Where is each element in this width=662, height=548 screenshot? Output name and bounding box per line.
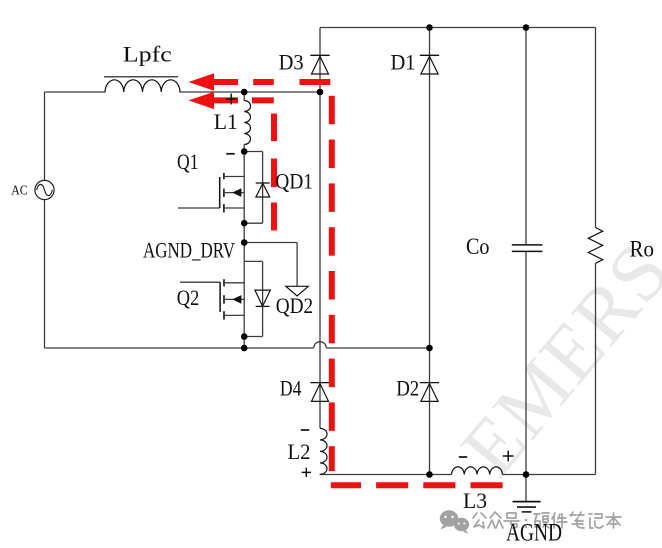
svg-text:L3: L3	[463, 488, 487, 513]
svg-text:Q2: Q2	[177, 285, 200, 310]
svg-text:D1: D1	[391, 50, 416, 75]
svg-text:Lpfc: Lpfc	[123, 41, 172, 66]
svg-text:D2: D2	[396, 376, 419, 401]
svg-text:AGND: AGND	[506, 520, 562, 547]
svg-text:D3: D3	[279, 50, 304, 75]
svg-text:Ro: Ro	[630, 237, 655, 262]
svg-text:QD1: QD1	[275, 168, 313, 193]
svg-text:QD2: QD2	[276, 293, 314, 318]
svg-text:Co: Co	[466, 234, 490, 260]
svg-text:L2: L2	[288, 439, 311, 464]
svg-text:Q1: Q1	[177, 149, 199, 174]
svg-text:AC: AC	[11, 183, 28, 198]
svg-text:D4: D4	[280, 376, 302, 401]
svg-text:L1: L1	[214, 109, 238, 134]
svg-text:AGND_DRV: AGND_DRV	[143, 238, 235, 263]
